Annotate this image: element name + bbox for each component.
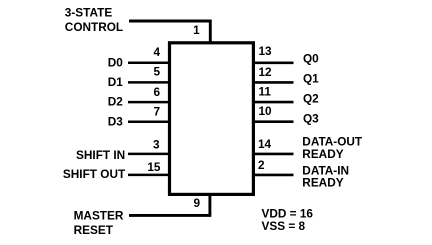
svg-text:Q0: Q0 (303, 51, 319, 65)
svg-text:3: 3 (153, 138, 160, 152)
wire: pin 11 to Q2 (253, 101, 294, 104)
wire: D3 to pin 7 (128, 120, 170, 123)
svg-text:12: 12 (259, 65, 273, 79)
wire: SHIFT IN to pin 3 (128, 153, 170, 156)
svg-text:SHIFT OUT: SHIFT OUT (63, 167, 126, 181)
wire: D0 to pin 4 (128, 62, 170, 65)
wire: 3-STATE CONTROL to pin 1 (top) (129, 21, 210, 43)
svg-text:11: 11 (259, 85, 272, 99)
wire: pin 14 to DATA-OUT READY (253, 153, 294, 156)
svg-text:4: 4 (153, 45, 160, 59)
wire: D1 to pin 5 (128, 81, 170, 84)
svg-text:5: 5 (153, 65, 160, 79)
svg-text:D3: D3 (108, 114, 124, 128)
svg-text:Q2: Q2 (303, 91, 319, 105)
svg-text:9: 9 (193, 196, 200, 210)
wire: SHIFT OUT to pin 15 (128, 174, 170, 177)
wire: pin 13 to Q0 (253, 61, 294, 64)
wire: pin 10 to Q3 (253, 120, 294, 123)
svg-text:7: 7 (153, 104, 160, 118)
svg-text:D0: D0 (108, 55, 124, 69)
wire: MASTER RESET to pin 9 (bottom) (129, 194, 210, 215)
svg-text:D2: D2 (108, 95, 124, 109)
svg-text:READY: READY (302, 147, 343, 161)
svg-text:Q3: Q3 (303, 111, 319, 125)
svg-text:SHIFT IN: SHIFT IN (76, 148, 125, 162)
svg-text:Q1: Q1 (303, 72, 319, 86)
svg-text:CONTROL: CONTROL (65, 20, 123, 34)
svg-text:3-STATE: 3-STATE (65, 6, 113, 20)
svg-text:6: 6 (153, 85, 160, 99)
svg-text:D1: D1 (108, 75, 124, 89)
net label DATA-OUT READY (302, 135, 363, 162)
wire: pin 2 to DATA-IN READY (253, 174, 294, 177)
svg-text:READY: READY (302, 176, 343, 190)
svg-text:MASTER: MASTER (74, 209, 124, 223)
svg-text:14: 14 (258, 137, 272, 151)
svg-text:15: 15 (147, 160, 161, 174)
svg-text:VSS = 8: VSS = 8 (262, 219, 306, 233)
svg-text:1: 1 (193, 23, 200, 37)
svg-text:10: 10 (259, 104, 273, 118)
svg-text:13: 13 (259, 44, 273, 58)
svg-text:2: 2 (258, 158, 265, 172)
net label DATA-IN READY (302, 163, 349, 189)
net label 3-STATE CONTROL (65, 6, 123, 34)
wire: D2 to pin 6 (128, 101, 170, 104)
wire: pin 12 to Q1 (253, 81, 294, 84)
net label MASTER RESET (74, 209, 124, 237)
svg-text:RESET: RESET (74, 223, 114, 237)
IC body U1 (170, 43, 254, 195)
